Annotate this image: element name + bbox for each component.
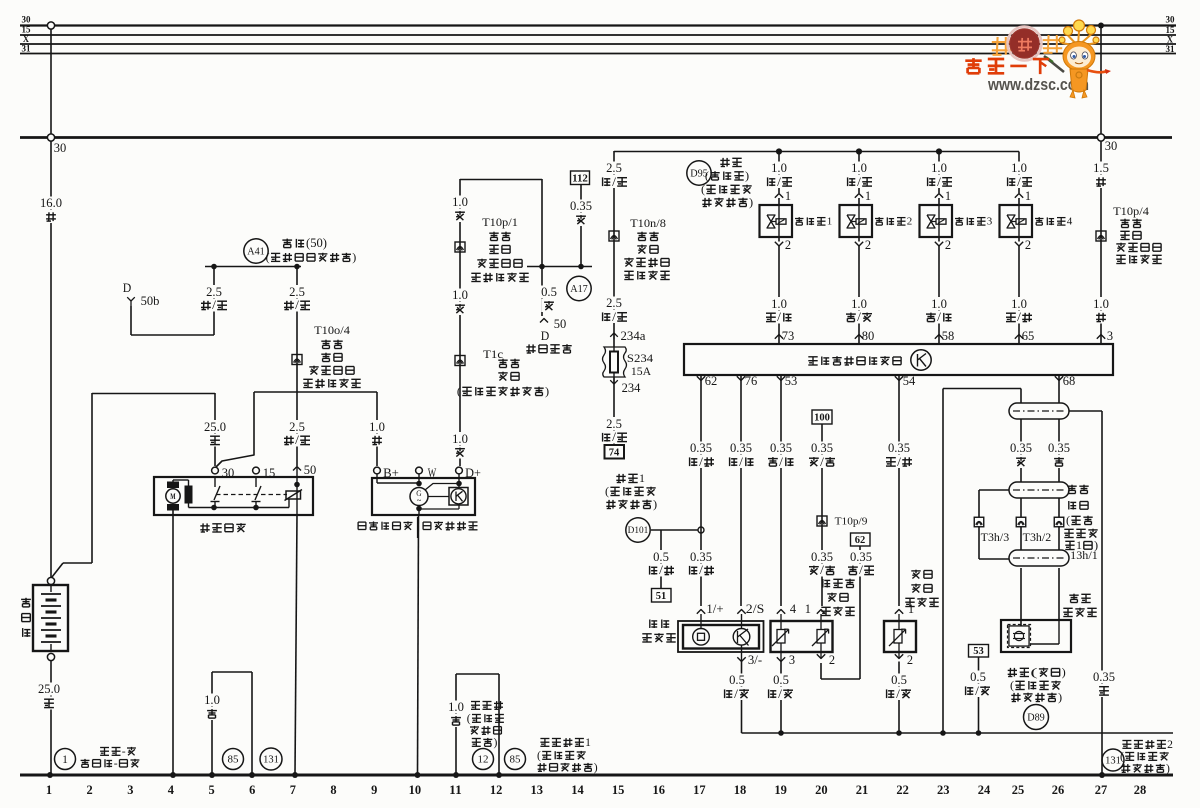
svg-text:T10p/4: T10p/4 — [1113, 204, 1149, 218]
svg-text:/: / — [612, 310, 616, 324]
svg-text:1.0: 1.0 — [452, 432, 468, 446]
svg-text:234: 234 — [622, 381, 642, 395]
fork terminal 234 — [610, 380, 618, 384]
connection A41 circle — [244, 239, 268, 263]
svg-text:/: / — [699, 563, 703, 577]
pin 4 caret — [777, 610, 785, 614]
connector T10p/9 — [817, 516, 827, 526]
svg-text:2.5: 2.5 — [606, 161, 622, 175]
svg-text:31: 31 — [1166, 44, 1176, 54]
label 接地连接1 — [540, 738, 549, 740]
ground symbol 1 circle — [55, 749, 76, 770]
junction dot bus 11 — [453, 772, 459, 778]
fork terminal 234a — [610, 333, 618, 337]
connection D101 circle — [626, 518, 650, 542]
svg-text:58: 58 — [942, 329, 955, 343]
svg-text:/: / — [937, 175, 941, 189]
connection D89 circle — [1024, 705, 1049, 730]
svg-text:25.0: 25.0 — [204, 420, 226, 434]
svg-text:T10p/1: T10p/1 — [482, 215, 518, 229]
junction dot bus 5 — [209, 772, 215, 778]
svg-text:X: X — [23, 34, 30, 44]
svg-text:/: / — [857, 310, 861, 324]
svg-text:12: 12 — [478, 754, 489, 766]
label 接地点 — [471, 701, 480, 703]
label 连接(单元) — [1009, 668, 1011, 677]
fuse S234 15A — [603, 347, 627, 377]
svg-text:/: / — [777, 310, 781, 324]
svg-text:/: / — [295, 433, 299, 447]
svg-text:76: 76 — [745, 374, 758, 388]
junction dot — [211, 505, 217, 511]
node junction bar — [527, 266, 592, 268]
pin 2 caret injector 4 — [1015, 242, 1023, 246]
connector T10p/4 — [1096, 231, 1106, 241]
junction dot — [940, 730, 946, 736]
wire injector 2 to ECU — [858, 246, 860, 344]
wire label 1.0 黑/绿 — [770, 297, 789, 310]
wire label 0.35 white — [1009, 442, 1034, 455]
svg-text:25.0: 25.0 — [38, 682, 60, 696]
svg-text:1.5: 1.5 — [1093, 161, 1109, 175]
svg-text:D101: D101 — [628, 526, 649, 536]
svg-text:/: / — [1017, 175, 1021, 189]
ECU pin 73 caret — [775, 335, 783, 339]
starter motor M1 启动电机 box — [154, 477, 313, 515]
svg-text:4: 4 — [168, 783, 175, 797]
pin 1 caret — [817, 610, 825, 614]
svg-text:0.35: 0.35 — [1048, 441, 1070, 455]
svg-text:11: 11 — [449, 783, 462, 797]
wire shield drain to ground rail — [942, 389, 944, 734]
svg-text:14: 14 — [571, 783, 584, 797]
svg-text:62: 62 — [705, 374, 718, 388]
svg-text:234a: 234a — [621, 329, 646, 343]
wire ignition switch branch — [541, 179, 543, 266]
svg-text:0.5: 0.5 — [891, 673, 907, 687]
svg-text:T10p/9: T10p/9 — [835, 516, 868, 528]
wire battery to starter B30 branch — [91, 393, 93, 563]
wire label 0.5 grey/white — [728, 674, 747, 687]
watermark char 片 — [1047, 35, 1050, 53]
svg-text:15A: 15A — [631, 364, 652, 378]
svg-text:15: 15 — [263, 466, 276, 480]
svg-text:1.0: 1.0 — [1093, 297, 1109, 311]
svg-text:68: 68 — [1063, 374, 1076, 388]
svg-text:(: ( — [1010, 678, 1014, 692]
svg-text:A17: A17 — [570, 284, 588, 295]
label 连接1 — [618, 474, 620, 483]
svg-text:0.5: 0.5 — [541, 285, 557, 299]
wire motor top link — [172, 480, 174, 482]
ECU pin 58 caret — [935, 335, 943, 339]
svg-text:/: / — [777, 175, 781, 189]
wire injector feed rail — [614, 151, 1019, 153]
svg-text:30: 30 — [22, 15, 32, 25]
wire D+ internal — [458, 474, 460, 487]
svg-text:1.0: 1.0 — [931, 297, 947, 311]
svg-text:1.0: 1.0 — [851, 297, 867, 311]
svg-text:M: M — [170, 492, 176, 501]
svg-text:(: ( — [537, 750, 541, 762]
wire injector 1 to ECU — [778, 246, 780, 344]
junction dot — [253, 505, 259, 511]
svg-text:0.35: 0.35 — [770, 441, 792, 455]
alternator terminal B+ — [374, 467, 381, 474]
junction dot — [416, 506, 422, 512]
label 连接 (injectors) — [722, 158, 724, 167]
svg-text:4: 4 — [790, 602, 797, 616]
svg-text:6: 6 — [249, 783, 255, 797]
wire T3h/3 to shield3 — [978, 527, 980, 559]
ground bracket 85/131 — [211, 672, 213, 773]
junction dot — [778, 730, 784, 736]
wire sensor ground rail — [742, 732, 1174, 734]
svg-text:2: 2 — [1167, 739, 1173, 751]
svg-text:~: ~ — [417, 496, 422, 506]
svg-text:2: 2 — [907, 216, 913, 228]
intake sensor label — [911, 570, 920, 572]
wire 53 to ground rail — [978, 657, 980, 733]
wire label 0.35 brown — [1047, 442, 1072, 455]
injector N31 喷油器2 box — [858, 198, 860, 205]
svg-text:D: D — [541, 329, 550, 343]
svg-text:0.35: 0.35 — [690, 441, 712, 455]
svg-text:T10o/4: T10o/4 — [314, 323, 350, 337]
svg-text:/: / — [937, 310, 941, 324]
svg-text:/: / — [1017, 310, 1021, 324]
svg-text:D: D — [123, 281, 132, 295]
svg-text:1.0: 1.0 — [851, 161, 867, 175]
svg-text:24: 24 — [978, 783, 991, 797]
svg-text:1.0: 1.0 — [204, 693, 220, 707]
ground bus bottom — [20, 774, 1173, 777]
svg-text:A41: A41 — [247, 247, 265, 258]
svg-text:2.5: 2.5 — [606, 296, 622, 310]
wire label 1.0 blue — [451, 196, 470, 209]
starter terminal 50 caret — [293, 467, 301, 471]
junction dot injector 3 — [936, 148, 942, 154]
pin 1 caret injector 3 — [935, 194, 943, 198]
wire bus rail 30 (top) — [20, 24, 1176, 26]
svg-text:0.5: 0.5 — [653, 550, 669, 564]
wire label 0.35 brown/grey — [769, 442, 794, 455]
watermark char 我 — [996, 37, 999, 55]
wire label 0.35 black/red — [887, 442, 912, 455]
pin 2 caret injector 3 — [935, 242, 943, 246]
svg-text:15: 15 — [612, 783, 625, 797]
svg-text:0.35: 0.35 — [730, 441, 752, 455]
mechanical link dashed — [216, 494, 287, 496]
wire label 1.0 brown — [203, 694, 222, 707]
svg-text:3: 3 — [127, 783, 133, 797]
label 接地连接2 — [1122, 740, 1131, 742]
wire starter motor to ground bus — [172, 511, 174, 774]
wire label 1.0 棕/蓝 — [850, 297, 869, 310]
svg-text:1: 1 — [805, 602, 811, 616]
svg-text:/: / — [699, 455, 703, 469]
svg-text:(: ( — [1120, 751, 1124, 763]
junction dot bus 12 — [496, 772, 502, 778]
svg-text:3/-: 3/- — [748, 653, 762, 667]
svg-text:12: 12 — [490, 783, 503, 797]
junction dot injector 2 — [856, 148, 862, 154]
svg-text:(: ( — [701, 182, 705, 196]
svg-text:16.0: 16.0 — [40, 196, 62, 210]
svg-text:-: - — [114, 758, 118, 770]
svg-text:): ) — [1062, 665, 1066, 679]
svg-text:2: 2 — [907, 653, 913, 667]
svg-text:1.0: 1.0 — [1011, 297, 1027, 311]
junction dot on rail 30 — [1098, 23, 1104, 29]
knock sensor G61 爆燃传感器 box — [1001, 620, 1071, 652]
svg-text:T10n/8: T10n/8 — [630, 216, 666, 230]
wire label 1.0 黑/紫 — [1010, 297, 1029, 310]
svg-text:/: / — [897, 455, 901, 469]
connection A17 circle — [567, 276, 591, 300]
wire label 1.0 blue — [451, 432, 470, 445]
alternator terminal D+ — [456, 467, 463, 474]
svg-text:/: / — [820, 563, 824, 577]
svg-text:1.0: 1.0 — [771, 297, 787, 311]
wire label 0.35 blue — [569, 200, 594, 213]
starter terminal 30 — [212, 467, 219, 474]
terminal 100 box — [812, 410, 832, 424]
svg-text:/: / — [975, 684, 979, 698]
svg-text:30: 30 — [1166, 15, 1176, 25]
wire rail 30 secondary (thick) — [20, 136, 1172, 139]
wire 0.35 black to ground bus — [1101, 411, 1103, 773]
svg-text:1: 1 — [585, 737, 591, 749]
wire bus rail X — [20, 43, 1176, 45]
connector T3h/2 — [1016, 517, 1026, 527]
shielded cable symbol 1 — [1009, 403, 1069, 419]
pin 1 caret injector 2 — [855, 194, 863, 198]
wire B+ internal — [376, 474, 378, 483]
wire label 0.35 green/violet — [689, 550, 714, 563]
svg-text:1: 1 — [62, 754, 68, 766]
wire label 0.35 green/violet — [689, 442, 714, 455]
coolant sensor element 1 — [777, 630, 785, 644]
svg-text:51: 51 — [656, 591, 667, 602]
svg-text:22: 22 — [896, 783, 909, 797]
battery label 蓄电池 — [21, 598, 31, 600]
pin 1 caret — [895, 610, 903, 614]
svg-text:0.35: 0.35 — [690, 550, 712, 564]
svg-text:/: / — [659, 563, 663, 577]
junction dot injector 1 — [776, 148, 782, 154]
wire label 2.5 green/yellow — [605, 297, 624, 310]
svg-text:-: - — [122, 746, 126, 758]
svg-text:): ) — [545, 384, 549, 398]
wire injector 3 to ECU — [938, 246, 940, 344]
battery G1 terminal bottom — [47, 653, 54, 660]
svg-text:0.35: 0.35 — [1093, 670, 1115, 684]
pin 3/- caret — [741, 645, 743, 661]
ground symbol 131b circle — [1102, 749, 1124, 771]
ground symbol 131 circle — [260, 748, 282, 770]
svg-text:): ) — [749, 195, 753, 209]
pin 2/S caret — [737, 610, 745, 614]
label divider — [417, 517, 419, 538]
wire label 1.0 red — [1092, 297, 1111, 310]
wire label 1.0 green/yellow — [1010, 162, 1029, 175]
wire bus rail 15 — [20, 34, 1176, 36]
wire injector 4 to ECU — [1018, 246, 1020, 344]
svg-text:8: 8 — [330, 783, 336, 797]
pin 3 caret — [780, 643, 782, 661]
svg-text:20: 20 — [815, 783, 828, 797]
svg-text:3: 3 — [789, 653, 795, 667]
wire A41 to T10o/4 to starter 50 — [296, 266, 298, 466]
watermark magnifier — [1008, 27, 1042, 61]
wire into shield 1 — [1020, 389, 1022, 404]
wire coolant 3 to ground rail — [780, 662, 782, 734]
svg-text:D+: D+ — [465, 466, 481, 480]
svg-text:131: 131 — [1105, 756, 1121, 767]
starter motor armature — [166, 489, 180, 503]
wire D+ to junction — [459, 179, 461, 466]
svg-text:30: 30 — [1105, 139, 1118, 153]
svg-text:21: 21 — [856, 783, 869, 797]
wire battery negative to ground bus — [50, 661, 52, 773]
ECU pin 54 caret — [895, 376, 903, 380]
wire ECU53 to coolant 4 — [780, 375, 782, 606]
junction dot — [456, 481, 462, 487]
hall symbol square-in-circle — [693, 629, 710, 646]
svg-text:S234: S234 — [627, 351, 653, 365]
wire jog to starter terminal 30 — [216, 392, 254, 467]
svg-text:1: 1 — [827, 216, 833, 228]
svg-text:54: 54 — [903, 374, 916, 388]
wire to ignition switch 50 — [541, 266, 543, 316]
ECU pin 68 caret — [1055, 376, 1063, 380]
svg-text:1.0: 1.0 — [448, 700, 464, 714]
wire label 0.5 grey/white — [969, 671, 988, 684]
svg-text:1: 1 — [785, 189, 791, 203]
fork terminal 50 ignition — [540, 319, 548, 323]
svg-text:0.35: 0.35 — [811, 550, 833, 564]
pin 2 caret injector 2 — [855, 242, 863, 246]
svg-text:D89: D89 — [1027, 713, 1045, 724]
connector T10p/1 — [455, 242, 465, 252]
connector T10n/8 — [609, 231, 619, 241]
tap open circle — [698, 527, 704, 533]
shielded cable symbol 2 — [1009, 482, 1069, 498]
junction dot — [294, 264, 300, 270]
svg-text:30: 30 — [222, 466, 235, 480]
watermark mascot — [1059, 20, 1111, 98]
wire bus rail 31 — [20, 53, 1176, 55]
svg-text:(: ( — [605, 484, 609, 498]
svg-text:74: 74 — [609, 448, 620, 459]
wire label 1.0 棕/绿 — [930, 297, 949, 310]
pin 2 caret injector 1 — [775, 242, 783, 246]
wire label 0.5 blue — [540, 286, 559, 299]
ECU J17 燃油喷射电控单元 box — [684, 344, 1113, 375]
label 正极(50) — [282, 239, 292, 241]
pin 2 caret — [820, 643, 822, 658]
terminal 74 box — [605, 445, 625, 459]
wire label 0.35 black — [1092, 671, 1117, 684]
svg-text:16: 16 — [653, 783, 666, 797]
wire G to D+ diagonal — [425, 484, 458, 491]
svg-text:1.0: 1.0 — [771, 161, 787, 175]
connection D95 circle — [687, 161, 711, 185]
svg-text:(: ( — [1066, 513, 1070, 527]
svg-text:): ) — [1058, 690, 1062, 704]
junction dot bus 10 — [415, 772, 421, 778]
junction dot bus 27 — [1099, 772, 1105, 778]
svg-text:85: 85 — [228, 754, 240, 766]
svg-text:53: 53 — [785, 374, 798, 388]
node terminal on rail 30 secondary — [47, 134, 54, 141]
label 启动电机 — [202, 523, 204, 532]
svg-text:26: 26 — [1052, 783, 1065, 797]
junction dot — [896, 730, 902, 736]
svg-text:1: 1 — [945, 189, 951, 203]
wire label 0.35 green/grey — [729, 442, 754, 455]
wire label 2.5 red/black — [205, 285, 224, 298]
wire starter 50 to ground bus — [295, 515, 297, 773]
junction dot — [976, 730, 982, 736]
svg-text:7: 7 — [290, 783, 296, 797]
ECU pin 80 caret — [855, 335, 863, 339]
svg-text:23: 23 — [937, 783, 950, 797]
svg-text:/: / — [734, 687, 738, 701]
intake temp sensor 进气温度传感器 box — [884, 621, 916, 652]
junction dot bus 4 — [170, 772, 176, 778]
svg-text:W: W — [428, 466, 437, 480]
ECU pin 76 caret — [737, 376, 745, 380]
wire alternator B+ branch horizontal — [254, 391, 377, 393]
node terminal on rail 30 — [47, 22, 54, 29]
svg-text:T3h/2: T3h/2 — [1023, 532, 1052, 544]
battery G1 terminal top — [47, 577, 54, 584]
alternator G1 交流发电机 box — [372, 478, 475, 515]
wire G to K — [428, 496, 449, 498]
ECU pin 65 caret — [1015, 335, 1023, 339]
wire ECU54 to intake 1 — [898, 375, 900, 606]
intake sensor element — [894, 630, 902, 644]
svg-text:1: 1 — [865, 189, 871, 203]
node A41 junction bar — [205, 266, 301, 268]
junction dot — [211, 264, 217, 270]
wire hall 3/- to ground rail — [741, 662, 743, 734]
svg-text:9: 9 — [371, 783, 377, 797]
svg-text:/: / — [896, 687, 900, 701]
svg-text:X: X — [1167, 35, 1174, 45]
wire injector 2 feed — [858, 152, 860, 194]
svg-text:28: 28 — [1134, 783, 1147, 797]
svg-text:0.35: 0.35 — [888, 441, 910, 455]
svg-text:B+: B+ — [383, 466, 399, 480]
junction dot — [578, 264, 584, 270]
svg-text:131: 131 — [263, 755, 279, 766]
wire label 25.0 black — [37, 683, 62, 696]
svg-text:1.0: 1.0 — [1011, 161, 1027, 175]
wire shield ground stub — [943, 388, 1021, 390]
shielded cable symbol 3 — [1009, 550, 1069, 566]
wire injector feed drop — [613, 151, 615, 445]
svg-text:15: 15 — [22, 25, 32, 35]
wire motor internal bottom — [188, 504, 190, 508]
svg-text:80: 80 — [862, 329, 875, 343]
svg-text:18: 18 — [734, 783, 747, 797]
svg-text:17: 17 — [693, 783, 706, 797]
svg-text:100: 100 — [814, 413, 830, 424]
svg-text:15: 15 — [1166, 25, 1176, 35]
